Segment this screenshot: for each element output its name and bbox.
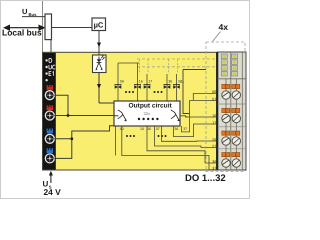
svg-text:4x: 4x	[219, 22, 229, 32]
terminal 2.4 blue	[45, 148, 54, 163]
dots inside output circuit	[138, 118, 159, 120]
LED labels D / UC / E1	[45, 58, 55, 81]
svg-text:06: 06	[120, 80, 124, 84]
label U_Bus	[22, 7, 45, 17]
connector group 3 terminals	[222, 131, 241, 145]
svg-text:26: 26	[212, 138, 216, 142]
svg-text:27: 27	[212, 145, 216, 149]
connector block	[217, 52, 246, 170]
connector LEDs column 2	[232, 54, 238, 76]
dashed repeat box	[206, 42, 245, 172]
wire supply rail right	[183, 70, 206, 114]
label DO 1...32	[185, 173, 226, 184]
svg-text:µC: µC	[94, 21, 104, 30]
svg-text:41: 41	[180, 80, 184, 84]
svg-text:07: 07	[156, 127, 160, 131]
junction blue	[70, 137, 73, 140]
label US 24V	[43, 180, 62, 198]
svg-text:37: 37	[183, 127, 187, 131]
svg-text:16: 16	[212, 114, 216, 118]
wires output circuit to connector	[116, 94, 240, 170]
connector internal stubs	[226, 79, 236, 170]
svg-text:06: 06	[147, 127, 151, 131]
wire left border above module	[42, 1, 44, 52]
label 4x	[213, 22, 229, 41]
svg-text:17: 17	[212, 121, 216, 125]
pin labels above output circuit	[120, 80, 182, 84]
output circuit block	[114, 101, 180, 126]
terminal number labels right column	[212, 90, 216, 170]
label Local bus	[2, 27, 42, 37]
svg-text:06: 06	[212, 90, 216, 94]
wire blue supply to output circuit	[54, 126, 114, 159]
connector LEDs column 1	[221, 54, 227, 76]
local bus connector	[45, 14, 52, 52]
svg-text:10: 10	[140, 127, 144, 131]
pin label 41	[180, 80, 184, 84]
svg-text:U: U	[22, 7, 27, 16]
svg-text:DO 1...32: DO 1...32	[185, 173, 226, 184]
LED indicator strip	[43, 53, 56, 170]
module body (yellow)	[43, 52, 217, 170]
svg-text:36: 36	[174, 127, 178, 131]
connector group 2 terminals	[222, 108, 241, 122]
svg-text:17: 17	[148, 80, 152, 84]
wire red supply to output circuit	[54, 95, 114, 115]
pin labels below output circuit	[120, 127, 188, 131]
svg-text:16: 16	[139, 80, 143, 84]
junction red	[67, 114, 70, 117]
svg-text:Local bus: Local bus	[2, 27, 42, 37]
optocoupler U2	[93, 55, 107, 73]
supply arrow US	[49, 171, 53, 183]
svg-text:Output circuit: Output circuit	[129, 103, 173, 110]
wire bus to uC	[52, 27, 93, 29]
svg-text:24 V: 24 V	[44, 187, 62, 197]
op-amp U1 microcontroller uC	[92, 18, 106, 31]
svg-text:32x: 32x	[144, 111, 150, 116]
connector group 4 terminals	[222, 153, 241, 168]
connector group 1 terminals	[222, 84, 241, 99]
wire uC down	[97, 31, 101, 56]
wire opto to output circuit	[97, 73, 114, 104]
ellipsis dots above box	[125, 91, 163, 93]
svg-text:36: 36	[168, 80, 172, 84]
terminal 1.1 red	[45, 85, 54, 100]
clamp diode symbols on output lines	[115, 84, 181, 89]
terminal 2.1 blue	[45, 129, 54, 144]
transistor Q right in output circuit	[171, 110, 180, 121]
local bus double arrow	[3, 25, 46, 31]
terminal 1.4 red	[45, 105, 54, 120]
dashed line repeat group	[137, 59, 217, 74]
svg-text:37: 37	[212, 167, 216, 171]
svg-text:07: 07	[212, 97, 216, 101]
svg-text:36: 36	[212, 160, 216, 164]
ellipsis dots below box	[126, 135, 167, 137]
output lines above output circuit	[118, 63, 177, 101]
transistor Q left in output circuit	[114, 110, 127, 121]
